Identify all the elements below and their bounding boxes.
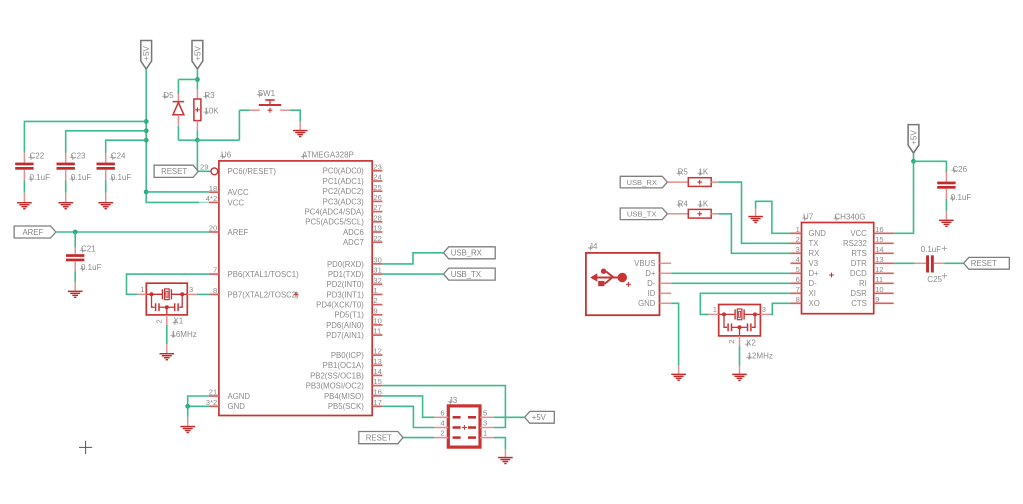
svg-text:4: 4 bbox=[440, 419, 444, 428]
power symbol +5V (reset pull-up) bbox=[192, 41, 203, 70]
svg-text:1: 1 bbox=[713, 305, 717, 314]
U7 pin D- 6 bbox=[791, 282, 802, 284]
svg-text:AVCC: AVCC bbox=[228, 188, 249, 197]
J4 pin GND bbox=[660, 302, 672, 304]
svg-text:28: 28 bbox=[373, 213, 381, 222]
wire AREF to pin 20 bbox=[56, 231, 209, 233]
svg-text:2: 2 bbox=[440, 429, 444, 438]
svg-text:PC4(ADC4/SDA): PC4(ADC4/SDA) bbox=[304, 208, 364, 217]
svg-text:31: 31 bbox=[373, 266, 381, 275]
J3 pin 6 bbox=[434, 416, 448, 418]
svg-text:X1: X1 bbox=[173, 317, 183, 326]
wire X1 pin2 to ground bbox=[166, 315, 168, 325]
wire J4 D+ to U7 D+ bbox=[671, 272, 790, 274]
svg-text:AREF: AREF bbox=[228, 228, 249, 237]
svg-text:PB7(XTAL2/TOSC2): PB7(XTAL2/TOSC2) bbox=[228, 290, 300, 299]
svg-text:1K: 1K bbox=[698, 199, 708, 208]
wire +5V to U7 VCC pin16 bbox=[894, 161, 914, 233]
svg-text:3: 3 bbox=[796, 245, 800, 254]
label USB_RX flag (U6 side) bbox=[444, 247, 496, 259]
U6 pin ADC7 22 bbox=[372, 241, 382, 243]
ground under C22 bbox=[17, 202, 32, 203]
wire PB4 to J3 pin6 bbox=[382, 396, 434, 417]
label RESET flag bbox=[154, 165, 198, 177]
svg-text:XO: XO bbox=[809, 299, 820, 308]
svg-text:PB4(MISO): PB4(MISO) bbox=[324, 392, 364, 401]
svg-text:0.1uF: 0.1uF bbox=[81, 263, 102, 272]
svg-text:0.1uF: 0.1uF bbox=[111, 173, 132, 182]
svg-text:PD6(AIN0): PD6(AIN0) bbox=[326, 321, 364, 330]
svg-text:17: 17 bbox=[373, 398, 381, 407]
svg-text:8: 8 bbox=[796, 295, 800, 304]
svg-text:21: 21 bbox=[209, 388, 217, 397]
capacitor C22 bbox=[23, 153, 25, 163]
J4 pin D+ bbox=[660, 272, 672, 274]
node GND junction bbox=[185, 404, 190, 409]
op-amp U6 ATMEGA328P body bbox=[219, 161, 372, 416]
svg-text:GND: GND bbox=[809, 229, 827, 238]
ground under C24 bbox=[98, 202, 113, 203]
svg-text:1: 1 bbox=[140, 285, 144, 294]
label USB_RX flag (R5) bbox=[620, 176, 667, 188]
ground under C23 bbox=[58, 202, 73, 203]
U6 pin AREF 20 bbox=[209, 231, 219, 233]
wire SW1 to ground bbox=[290, 110, 300, 122]
svg-text:AREF: AREF bbox=[22, 228, 43, 237]
wire +5V to R3/D5 junction bbox=[196, 69, 198, 89]
wire PD0 to USB_RX bbox=[382, 253, 443, 264]
svg-text:3: 3 bbox=[189, 285, 193, 294]
svg-text:6: 6 bbox=[796, 275, 800, 284]
svg-text:RTS: RTS bbox=[851, 249, 866, 258]
wire C23 to ground bbox=[65, 181, 67, 193]
svg-text:14: 14 bbox=[875, 245, 883, 254]
wire AVCC to rail bbox=[146, 191, 209, 193]
svg-text:USB_TX: USB_TX bbox=[451, 270, 482, 279]
wire U7 XO to X2 pin3 bbox=[770, 303, 790, 314]
U6 pin PC5(ADC5/SCL) 28 bbox=[372, 221, 382, 223]
wire PB3 to J3 pin3 bbox=[382, 386, 505, 428]
U7 pin RI 11 bbox=[874, 282, 894, 284]
wire C22 to +5V rail bbox=[24, 121, 146, 152]
svg-text:C23: C23 bbox=[71, 152, 86, 161]
svg-text:12: 12 bbox=[875, 265, 883, 274]
svg-text:PD4(XCK/T0): PD4(XCK/T0) bbox=[316, 301, 364, 310]
sheet origin cross bbox=[79, 441, 92, 454]
svg-text:DTR: DTR bbox=[851, 259, 867, 268]
svg-text:D+: D+ bbox=[809, 269, 820, 278]
U7 pin XO 8 bbox=[791, 302, 802, 304]
svg-text:13: 13 bbox=[875, 255, 883, 264]
svg-text:10: 10 bbox=[373, 317, 381, 326]
svg-text:GND: GND bbox=[228, 402, 246, 411]
svg-text:26: 26 bbox=[373, 193, 381, 202]
U7 pin D+ 5 bbox=[791, 272, 802, 274]
svg-text:CH340G: CH340G bbox=[834, 212, 865, 221]
J4 pin D- bbox=[660, 282, 672, 284]
svg-text:TX: TX bbox=[809, 239, 820, 248]
diode D5 bbox=[177, 94, 179, 101]
svg-text:+5V: +5V bbox=[193, 45, 202, 60]
svg-text:+5V: +5V bbox=[532, 413, 547, 422]
svg-text:D-: D- bbox=[809, 279, 818, 288]
svg-text:11: 11 bbox=[875, 275, 883, 284]
U6 pin VCC 4*2 bbox=[209, 201, 219, 203]
svg-text:16: 16 bbox=[875, 225, 883, 234]
U6 pin AVCC 18 bbox=[209, 191, 219, 193]
J3 pin 3 bbox=[480, 427, 494, 429]
U7 pin TX 2 bbox=[791, 242, 802, 244]
wire J4 GND to ground bbox=[671, 303, 678, 366]
svg-text:29: 29 bbox=[200, 163, 208, 172]
wire junction to SW1 bbox=[197, 139, 239, 141]
junction dots on +5V rail bbox=[144, 119, 149, 124]
J4 pin ID bbox=[660, 292, 672, 294]
svg-text:2: 2 bbox=[373, 296, 377, 305]
svg-text:RESET: RESET bbox=[161, 167, 187, 176]
resistor R4 bbox=[667, 213, 688, 215]
wire X1 pin3 to PB7 bbox=[187, 293, 197, 295]
U6 pin PD2(INT0) 32 bbox=[372, 283, 382, 285]
wire X2 pin2 to ground bbox=[739, 336, 741, 346]
svg-text:22: 22 bbox=[373, 234, 381, 243]
svg-text:PB3(MOSI/OC2): PB3(MOSI/OC2) bbox=[306, 382, 364, 391]
capacitor C21 bbox=[74, 232, 76, 247]
svg-text:VCC: VCC bbox=[228, 198, 245, 207]
label USB_TX flag (R4) bbox=[620, 208, 667, 220]
wire U7 DTR to C25 bbox=[894, 262, 915, 264]
svg-text:11: 11 bbox=[373, 327, 381, 336]
svg-text:U6: U6 bbox=[221, 151, 232, 160]
label USB_TX flag (U6 side) bbox=[444, 268, 496, 280]
wire C25 to RESET flag bbox=[945, 262, 964, 264]
wire +5V down to junction bbox=[913, 153, 915, 161]
U7 pin CTS 9 bbox=[874, 302, 894, 304]
svg-text:AGND: AGND bbox=[228, 392, 251, 401]
svg-text:R4: R4 bbox=[678, 199, 689, 208]
svg-text:GND: GND bbox=[638, 299, 656, 308]
svg-text:2: 2 bbox=[154, 319, 163, 323]
U6 pin PB1(OC1A) 13 bbox=[372, 364, 382, 366]
U6 pin PB7(XTAL2/TOSC2) 8 bbox=[209, 293, 219, 295]
wire C26 to ground bbox=[945, 199, 947, 211]
svg-text:RS232: RS232 bbox=[843, 239, 867, 248]
svg-text:J4: J4 bbox=[589, 242, 598, 251]
resistor R3 bbox=[196, 89, 198, 99]
svg-text:1: 1 bbox=[796, 225, 800, 234]
svg-text:V3: V3 bbox=[809, 259, 819, 268]
svg-text:ADC7: ADC7 bbox=[343, 238, 364, 247]
svg-text:PB6(XTAL1/TOSC1): PB6(XTAL1/TOSC1) bbox=[228, 270, 300, 279]
svg-text:C21: C21 bbox=[81, 244, 96, 253]
svg-text:25: 25 bbox=[373, 183, 381, 192]
U7 pin RS232 15 bbox=[874, 242, 894, 244]
resistor R5 bbox=[667, 181, 688, 183]
svg-text:4*2: 4*2 bbox=[206, 194, 217, 203]
U7 pin DSR 10 bbox=[874, 292, 894, 294]
svg-text:X2: X2 bbox=[746, 338, 756, 347]
label RESET flag (J3) bbox=[359, 432, 403, 444]
U7 pin DTR 13 bbox=[874, 262, 894, 264]
svg-text:U7: U7 bbox=[803, 212, 814, 221]
wire pale VCC segment bbox=[199, 201, 209, 203]
svg-text:0.1uF: 0.1uF bbox=[30, 173, 51, 182]
wire C23 to +5V rail bbox=[66, 131, 147, 153]
svg-text:CTS: CTS bbox=[851, 299, 867, 308]
U6 pin PD4(XCK/T0) 2 bbox=[372, 304, 382, 306]
node R3 top junction bbox=[195, 77, 200, 82]
U7 pin RTS 14 bbox=[874, 252, 894, 254]
ground under C21 bbox=[68, 291, 83, 292]
ground near R4 bbox=[748, 216, 763, 217]
J4 USB icon bbox=[590, 269, 631, 287]
crystal X2 bbox=[719, 305, 761, 336]
svg-text:12MHz: 12MHz bbox=[748, 352, 773, 361]
svg-text:PD1(TXD): PD1(TXD) bbox=[328, 270, 364, 279]
svg-text:R3: R3 bbox=[204, 91, 215, 100]
wire U7 XI to X2 pin1 bbox=[700, 293, 790, 314]
svg-text:9: 9 bbox=[875, 295, 879, 304]
svg-text:24: 24 bbox=[373, 173, 381, 182]
wire R3 bottom to junction bbox=[196, 131, 198, 141]
svg-text:PC1(ADC1): PC1(ADC1) bbox=[323, 177, 365, 186]
svg-text:2: 2 bbox=[796, 235, 800, 244]
svg-text:18: 18 bbox=[209, 184, 217, 193]
svg-text:32: 32 bbox=[373, 276, 381, 285]
connector J4 USB bbox=[586, 253, 660, 315]
U6 pin PD3(INT1) 1 bbox=[372, 293, 382, 295]
U6 pin PB0(ICP) 12 bbox=[372, 354, 382, 356]
J3 pin 1 bbox=[480, 437, 494, 439]
wire J4 D- to U7 D- bbox=[671, 282, 790, 284]
wire junction to C26 bbox=[914, 161, 947, 172]
label AREF flag bbox=[14, 226, 56, 238]
U6 pin PC3(ADC3) 26 bbox=[372, 200, 382, 202]
capacitor C23 bbox=[65, 153, 67, 163]
U6 pin ADC6 19 bbox=[372, 231, 382, 233]
svg-text:10: 10 bbox=[875, 285, 883, 294]
svg-text:R5: R5 bbox=[678, 168, 689, 177]
ground under SW1 bbox=[293, 130, 308, 131]
pin 29 inverting bubble bbox=[211, 168, 218, 175]
wire AGND/GND join bbox=[188, 396, 209, 406]
connector J3 bbox=[448, 406, 480, 447]
svg-text:16MHz: 16MHz bbox=[171, 330, 196, 339]
svg-text:3: 3 bbox=[483, 419, 487, 428]
svg-text:PB5(SCK): PB5(SCK) bbox=[328, 402, 364, 411]
svg-text:C26: C26 bbox=[952, 165, 967, 174]
U6 pin PB5(SCK) 17 bbox=[372, 405, 382, 407]
svg-text:D-: D- bbox=[647, 279, 656, 288]
svg-text:19: 19 bbox=[373, 224, 381, 233]
op-amp U7 CH340G body bbox=[802, 223, 874, 314]
wire J3 pin1 to ground bbox=[494, 438, 505, 449]
capacitor C25 bbox=[926, 255, 929, 272]
U6 pin PC2(ADC2) 25 bbox=[372, 190, 382, 192]
svg-text:USB_TX: USB_TX bbox=[627, 210, 657, 219]
svg-text:PC5(ADC5/SCL): PC5(ADC5/SCL) bbox=[305, 218, 364, 227]
U6 pin PB2(SS/OC1B) 14 bbox=[372, 374, 382, 376]
svg-text:10K: 10K bbox=[204, 106, 219, 115]
svg-text:14: 14 bbox=[373, 367, 381, 376]
svg-text:0.1uF: 0.1uF bbox=[71, 173, 92, 182]
wire GND down bbox=[187, 406, 189, 417]
wire J3 pin5 to +5V bbox=[494, 416, 525, 418]
node +5V/C26 junction bbox=[911, 159, 916, 164]
svg-text:30: 30 bbox=[373, 256, 381, 265]
svg-text:J3: J3 bbox=[449, 396, 458, 405]
wire PB5 to J3 pin4 bbox=[382, 406, 434, 427]
U6 pin PD6(AIN0) 10 bbox=[372, 324, 382, 326]
svg-text:27: 27 bbox=[373, 203, 381, 212]
U6 pin AGND 21 bbox=[209, 395, 219, 397]
U6 pin PB3(MOSI/OC2) 15 bbox=[372, 385, 382, 387]
U6 pin PD7(AIN1) 11 bbox=[372, 334, 382, 336]
wire RESET vertical bbox=[196, 140, 198, 171]
wire U7 GND pin1 to ground bbox=[756, 201, 791, 233]
svg-text:PC3(ADC3): PC3(ADC3) bbox=[323, 197, 365, 206]
ground under J3 bbox=[498, 457, 513, 458]
svg-text:C22: C22 bbox=[30, 152, 45, 161]
svg-text:PB2(SS/OC1B): PB2(SS/OC1B) bbox=[310, 371, 364, 380]
wire C21 to ground bbox=[74, 272, 76, 282]
svg-text:RESET: RESET bbox=[971, 259, 997, 268]
svg-text:5: 5 bbox=[796, 265, 800, 274]
U6 pin PD1(TXD) 31 bbox=[372, 273, 382, 275]
svg-text:VBUS: VBUS bbox=[634, 259, 655, 268]
node AREF/C21 junction bbox=[73, 230, 78, 235]
svg-text:7: 7 bbox=[213, 266, 217, 275]
node RESET net junction bbox=[195, 138, 200, 143]
label +5V flag (J3) bbox=[525, 411, 555, 423]
svg-text:23: 23 bbox=[373, 162, 381, 171]
wire C22 to ground bbox=[23, 181, 25, 193]
svg-text:PD3(INT1): PD3(INT1) bbox=[327, 290, 365, 299]
wire R5 to U7 TX pin2 bbox=[718, 182, 790, 243]
svg-text:PD2(INT0): PD2(INT0) bbox=[327, 280, 365, 289]
svg-text:PD5(T1): PD5(T1) bbox=[334, 311, 364, 320]
svg-text:DCD: DCD bbox=[850, 269, 867, 278]
svg-text:12: 12 bbox=[373, 347, 381, 356]
U6 pin PC1(ADC1) 24 bbox=[372, 180, 382, 182]
svg-text:XI: XI bbox=[809, 289, 816, 298]
wire RESET to pin 29 bubble bbox=[198, 170, 211, 172]
ground under U6 GND bbox=[180, 426, 195, 427]
svg-text:1: 1 bbox=[483, 429, 487, 438]
svg-text:RESET: RESET bbox=[366, 433, 392, 442]
svg-text:PD0(RXD): PD0(RXD) bbox=[327, 260, 364, 269]
svg-text:USB_RX: USB_RX bbox=[627, 178, 657, 187]
power symbol +5V (CH340G) bbox=[908, 125, 919, 154]
capacitor C24 bbox=[105, 153, 107, 163]
wire C24 to ground bbox=[105, 181, 107, 193]
svg-text:3: 3 bbox=[762, 305, 766, 314]
svg-text:0.1uF: 0.1uF bbox=[921, 245, 942, 254]
svg-text:PB1(OC1A): PB1(OC1A) bbox=[323, 361, 365, 370]
svg-text:VCC: VCC bbox=[850, 229, 867, 238]
svg-text:4: 4 bbox=[796, 255, 800, 264]
svg-text:SW1: SW1 bbox=[258, 89, 276, 98]
svg-text:C24: C24 bbox=[111, 152, 126, 161]
svg-text:9: 9 bbox=[373, 306, 377, 315]
U6 pin PD0(RXD) 30 bbox=[372, 263, 382, 265]
svg-text:+5V: +5V bbox=[910, 130, 919, 145]
wire branch to D5 bbox=[178, 78, 197, 80]
wire R4 to U7 RX pin3 bbox=[718, 214, 790, 254]
ground under X1 bbox=[160, 353, 175, 354]
U7 pin DCD 12 bbox=[874, 272, 894, 274]
wire D5 bottom to junction bbox=[177, 126, 179, 140]
U7 pin VCC 16 bbox=[874, 232, 894, 234]
svg-text:1K: 1K bbox=[698, 168, 708, 177]
svg-text:13: 13 bbox=[373, 357, 381, 366]
svg-text:ADC6: ADC6 bbox=[343, 228, 364, 237]
svg-text:15: 15 bbox=[875, 235, 883, 244]
J3 pin 5 bbox=[480, 416, 494, 418]
J3 pin 4 bbox=[434, 427, 448, 429]
wire +5V rail down to VCC row bbox=[146, 69, 199, 202]
svg-text:20: 20 bbox=[209, 224, 217, 233]
U6 pin PB4(MISO) 16 bbox=[372, 395, 382, 397]
ground under J4 bbox=[671, 374, 686, 375]
wire C24 to +5V rail bbox=[106, 140, 147, 152]
svg-text:2: 2 bbox=[727, 340, 736, 344]
svg-text:16: 16 bbox=[373, 388, 381, 397]
svg-text:PB0(ICP): PB0(ICP) bbox=[331, 351, 364, 360]
svg-text:C25: C25 bbox=[927, 275, 942, 284]
svg-text:RX: RX bbox=[809, 249, 821, 258]
svg-text:USB_RX: USB_RX bbox=[451, 249, 483, 258]
U6 pin PD5(T1) 9 bbox=[372, 314, 382, 316]
power symbol +5V (left rail) bbox=[141, 41, 152, 70]
label RESET flag (right) bbox=[964, 257, 1010, 269]
U7 pin GND 1 bbox=[791, 232, 802, 234]
svg-text:PC2(ADC2): PC2(ADC2) bbox=[323, 187, 365, 196]
svg-text:ID: ID bbox=[648, 289, 656, 298]
U7 pin RX 3 bbox=[791, 252, 802, 254]
ground under X2 bbox=[732, 374, 747, 375]
U6 pin PB6(XTAL1/TOSC1) 7 bbox=[209, 273, 219, 275]
svg-text:RI: RI bbox=[859, 279, 867, 288]
U7 pin XI 7 bbox=[791, 292, 802, 294]
svg-text:PD7(AIN1): PD7(AIN1) bbox=[326, 331, 364, 340]
svg-text:15: 15 bbox=[373, 377, 381, 386]
svg-text:6: 6 bbox=[440, 408, 444, 417]
svg-text:PC0(ADC0): PC0(ADC0) bbox=[323, 167, 365, 176]
svg-text:1: 1 bbox=[373, 286, 377, 295]
svg-text:PC6(/RESET): PC6(/RESET) bbox=[228, 167, 277, 176]
svg-text:8: 8 bbox=[213, 286, 217, 295]
svg-text:7: 7 bbox=[796, 285, 800, 294]
capacitor C26 bbox=[945, 172, 947, 182]
J3 pin 2 bbox=[434, 437, 448, 439]
wire X1 pin1 to PB6 bbox=[137, 293, 146, 295]
U6 pin PC0(ADC0) 23 bbox=[372, 170, 382, 172]
svg-text:5: 5 bbox=[483, 408, 487, 417]
J4 pin VBUS bbox=[660, 262, 672, 264]
switch SW1 bbox=[250, 109, 260, 111]
wire PD1 to USB_TX bbox=[382, 273, 443, 275]
U7 pin V3 4 bbox=[791, 262, 802, 264]
svg-text:D5: D5 bbox=[163, 91, 174, 100]
svg-text:DSR: DSR bbox=[850, 289, 867, 298]
crystal X1 bbox=[146, 283, 187, 315]
ground under C26 bbox=[939, 220, 954, 221]
U6 pin PC4(ADC4/SDA) 27 bbox=[372, 211, 382, 213]
svg-text:+5V: +5V bbox=[142, 45, 151, 60]
wire RESET flag to J3 pin2 bbox=[403, 437, 434, 439]
svg-text:D+: D+ bbox=[645, 269, 656, 278]
